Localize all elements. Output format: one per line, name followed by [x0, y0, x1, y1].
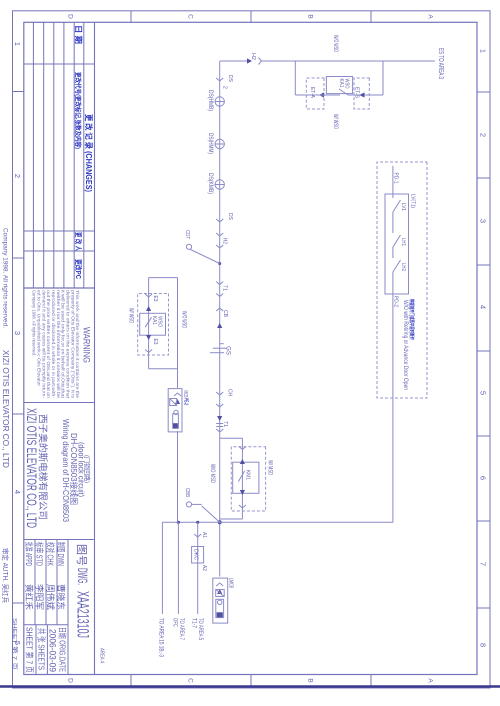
svg-text:PE-2: PE-2 — [183, 398, 189, 405]
svg-text:带提前开门或再平层时断开: 带提前开门或再平层时断开 — [408, 299, 415, 340]
svg-text:DS: DS — [227, 75, 233, 82]
svg-text:PD-1: PD-1 — [393, 173, 399, 184]
svg-text:DS(HMM): DS(HMM) — [207, 133, 213, 154]
svg-text:ET-A: ET-A — [309, 87, 315, 98]
svg-text:周伟斌: 周伟斌 — [45, 584, 56, 610]
svg-text:E3: E3 — [152, 339, 158, 345]
svg-text:4: 4 — [13, 490, 22, 494]
svg-text:H2: H2 — [250, 53, 256, 60]
svg-text:A1: A1 — [201, 532, 207, 538]
svg-text:W/O WSO: W/O WSO — [332, 35, 338, 52]
svg-text:ES TO AREA 3: ES TO AREA 3 — [437, 48, 446, 79]
svg-text:AREA 4: AREA 4 — [99, 648, 105, 663]
svg-text:图号: 图号 — [75, 544, 88, 566]
svg-text:GS: GS — [225, 346, 232, 356]
svg-text:3: 3 — [479, 219, 488, 223]
svg-text:W/ WSO: W/ WSO — [128, 308, 134, 323]
svg-text:B: B — [307, 14, 314, 18]
svg-text:Wiring diagram of DH-CON8503: Wiring diagram of DH-CON8503 — [61, 419, 70, 522]
svg-text:2006-03-09: 2006-03-09 — [48, 629, 58, 672]
svg-text:A2: A2 — [201, 565, 207, 571]
svg-text:out the prior written consent: out the prior written consent of Otis;an… — [46, 290, 51, 399]
svg-text:WSO: WSO — [157, 316, 163, 327]
svg-text:曹晓东: 曹晓东 — [56, 584, 67, 610]
svg-text:it will be used only for,or on: it will be used only for,or on behalf of… — [61, 290, 66, 399]
svg-text:CDT: CDT — [184, 230, 190, 240]
svg-text:LH1: LH1 — [400, 238, 406, 246]
svg-text:6: 6 — [479, 476, 488, 480]
svg-text:A: A — [427, 678, 434, 683]
svg-text:TO AREA 7: TO AREA 7 — [178, 618, 185, 640]
svg-text:1: 1 — [479, 49, 488, 53]
svg-text:CB: CB — [222, 310, 228, 317]
svg-text:demand it and any copies will: demand it and any copies will be promptl… — [41, 290, 46, 399]
svg-text:西子奥的斯电梯有限公司: 西子奥的斯电梯有限公司 — [38, 414, 49, 520]
svg-text:WSO: WSO — [344, 79, 350, 89]
svg-text:T1: T1 — [222, 421, 228, 427]
svg-text:XIZI OTIS ELEVATOR CO., LTD: XIZI OTIS ELEVATOR CO., LTD — [1, 350, 11, 468]
svg-text:3: 3 — [13, 331, 22, 335]
svg-text:H2: H2 — [222, 238, 228, 244]
svg-text:ET-S: ET-S — [354, 87, 360, 98]
svg-text:W/ WSO: W/ WSO — [332, 114, 338, 129]
svg-text:WARNING: WARNING — [81, 327, 92, 363]
svg-text:更改PC: 更改PC — [74, 259, 83, 279]
svg-text:SHEET 第 7 页: SHEET 第 7 页 — [24, 627, 34, 673]
svg-text:更改代号(更改标记,张数及内容): 更改代号(更改标记,张数及内容) — [74, 72, 83, 149]
svg-text:DH-CON8503接线图: DH-CON8503接线图 — [69, 433, 79, 505]
svg-text:reproduced or disclosed,in who: reproduced or disclosed,in whole or in p… — [51, 290, 56, 399]
svg-text:DS(KMB): DS(KMB) — [207, 173, 213, 194]
svg-text:审定 AUTH. 吴红兵: 审定 AUTH. 吴红兵 — [1, 548, 10, 603]
svg-text:LV(T1): LV(T1) — [410, 194, 416, 208]
svg-text:Company 1998. All rights reser: Company 1998. All rights reserved. — [2, 228, 9, 328]
svg-text:TO AREA 5: TO AREA 5 — [197, 618, 204, 640]
svg-text:制图 DWN: 制图 DWN — [56, 542, 67, 566]
svg-text:T1-7: T1-7 — [191, 618, 198, 628]
svg-text:delivered to others on the exp: delivered to others on the express condi… — [66, 290, 71, 399]
svg-text:DS: DS — [227, 213, 233, 220]
svg-text:property of Otis Elevator Comp: property of Otis Elevator Company ("Otis… — [70, 290, 75, 399]
svg-text:2: 2 — [13, 174, 22, 178]
svg-text:校对 CHK: 校对 CHK — [45, 542, 56, 566]
svg-text:Company 1998. All rights reser: Company 1998. All rights reserved. — [32, 290, 37, 356]
svg-text:黄红禾: 黄红禾 — [24, 584, 35, 610]
svg-text:CBB: CBB — [184, 488, 190, 497]
svg-text:ed to Otis. Unpublished work-: ed to Otis. Unpublished work-c Otis Elev… — [36, 290, 41, 387]
svg-text:MCB: MCB — [182, 391, 188, 398]
svg-text:D: D — [67, 678, 74, 683]
svg-text:TO AREA 15 1B,-3: TO AREA 15 1B,-3 — [158, 618, 165, 657]
svg-text:OFC: OFC — [172, 618, 179, 627]
svg-text:批准 APPD: 批准 APPD — [24, 542, 35, 566]
svg-text:E3: E3 — [152, 296, 158, 302]
svg-text:更 改 记 录 (CHANGES): 更 改 记 录 (CHANGES) — [84, 114, 94, 192]
svg-text:2: 2 — [222, 86, 228, 89]
svg-text:DKC: DKC — [193, 549, 199, 560]
svg-text:C: C — [187, 14, 194, 19]
svg-text:日期 ORIG.DATE: 日期 ORIG.DATE — [58, 627, 67, 672]
svg-text:DS(HMB): DS(HMB) — [207, 90, 213, 111]
svg-text:7: 7 — [479, 562, 488, 566]
svg-text:LMCB: LMCB — [228, 578, 234, 588]
svg-text:日 期: 日 期 — [74, 25, 84, 45]
svg-text:W/O WSO: W/O WSO — [181, 311, 187, 328]
svg-text:LV1: LV1 — [400, 203, 406, 211]
svg-text:B: B — [307, 678, 314, 682]
svg-text:KA1: KA1 — [151, 316, 157, 325]
svg-text:T1: T1 — [222, 285, 228, 291]
svg-text:W/ MSD: W/ MSD — [267, 460, 273, 475]
svg-text:标审 STD: 标审 STD — [35, 542, 46, 566]
svg-text:2: 2 — [479, 133, 488, 137]
svg-text:李阳军: 李阳军 — [35, 584, 46, 610]
svg-text:C: C — [187, 678, 194, 683]
svg-text:This work and the information: This work and the information it contain… — [75, 290, 80, 399]
svg-text:CH: CH — [227, 389, 233, 396]
svg-text:W/O with Retiring or Advance D: W/O with Retiring or Advance Door Open — [402, 300, 408, 390]
svg-text:4: 4 — [479, 305, 488, 309]
svg-text:共 张 SHEETS: 共 张 SHEETS — [37, 628, 47, 670]
svg-text:DWG.: DWG. — [75, 568, 91, 585]
svg-text:PD-2: PD-2 — [393, 296, 399, 307]
svg-text:5: 5 — [479, 391, 488, 395]
svg-text:W/O MSD: W/O MSD — [209, 464, 215, 483]
svg-text:LH2: LH2 — [400, 263, 406, 271]
svg-text:neither it nor the information: neither it nor the information it contai… — [56, 290, 61, 399]
svg-text:更 改 人: 更 改 人 — [74, 232, 83, 252]
svg-text:8: 8 — [479, 643, 488, 647]
svg-text:XAA21310J: XAA21310J — [74, 591, 92, 638]
svg-text:A: A — [427, 14, 434, 19]
svg-text:1: 1 — [13, 42, 22, 46]
svg-text:KM1: KM1 — [244, 470, 250, 480]
svg-text:D: D — [67, 14, 74, 19]
svg-text:KA1: KA1 — [338, 79, 344, 88]
svg-text:XIZI OTIS ELEVATOR CO., LTD: XIZI OTIS ELEVATOR CO., LTD — [24, 408, 39, 528]
